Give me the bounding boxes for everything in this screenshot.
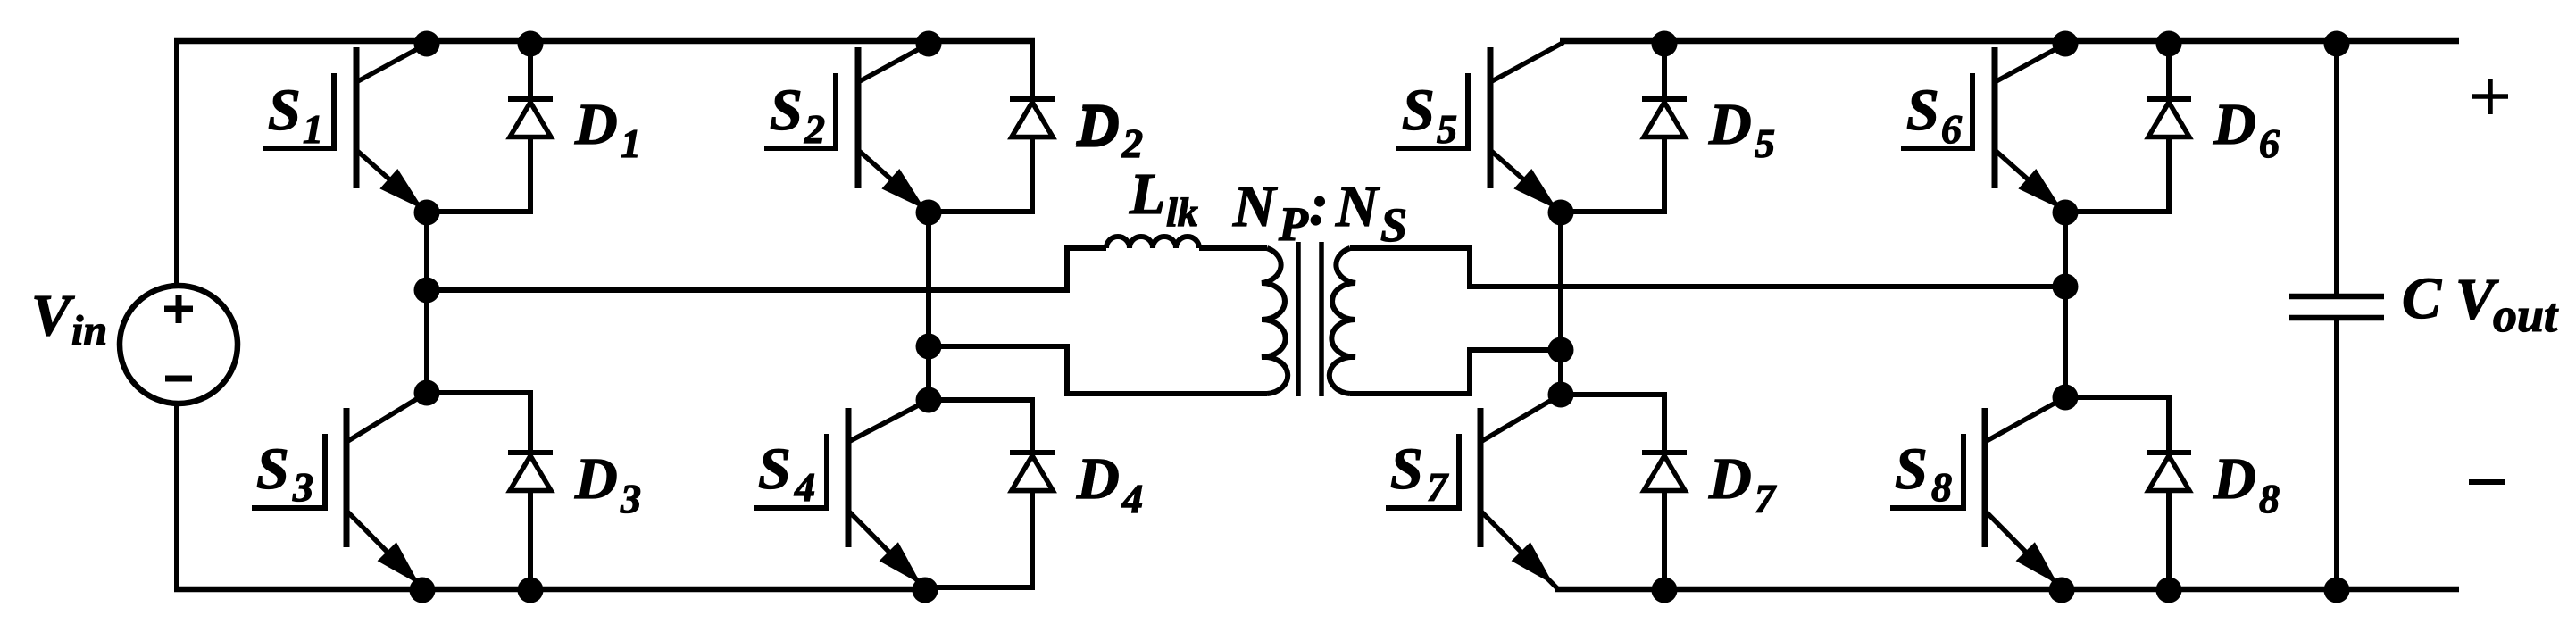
- svg-text:D: D: [1708, 446, 1752, 512]
- svg-text:S: S: [1895, 437, 1928, 502]
- svg-text:D: D: [1708, 92, 1752, 157]
- svg-text:D: D: [1076, 95, 1120, 160]
- svg-text:V: V: [31, 283, 75, 348]
- svg-text:D: D: [2213, 92, 2256, 157]
- svg-text:S: S: [268, 78, 301, 143]
- svg-text:lk: lk: [1166, 189, 1198, 235]
- svg-text:4: 4: [794, 464, 815, 510]
- svg-text:S: S: [1402, 78, 1435, 143]
- svg-text:1: 1: [621, 121, 641, 166]
- svg-text:S: S: [770, 78, 803, 143]
- svg-text:8: 8: [2259, 476, 2280, 521]
- svg-text:6: 6: [1941, 106, 1962, 152]
- svg-text:3: 3: [620, 476, 641, 521]
- svg-text:2: 2: [804, 106, 825, 152]
- svg-text:D: D: [574, 92, 618, 157]
- svg-text:D: D: [574, 446, 618, 512]
- svg-text:P: P: [1278, 197, 1309, 251]
- svg-text:1: 1: [303, 106, 323, 152]
- svg-text:S: S: [1906, 78, 1939, 143]
- svg-text:in: in: [71, 307, 107, 354]
- svg-text:6: 6: [2259, 121, 2280, 166]
- svg-text:D: D: [1076, 446, 1120, 512]
- svg-text:S: S: [1380, 198, 1407, 252]
- svg-text:D: D: [2213, 446, 2256, 512]
- svg-text::: :: [1309, 172, 1329, 237]
- svg-text:4: 4: [1121, 476, 1143, 521]
- svg-text:N: N: [1335, 174, 1380, 239]
- svg-text:2: 2: [1121, 121, 1143, 166]
- svg-text:N: N: [1232, 174, 1278, 239]
- svg-text:S: S: [256, 437, 289, 502]
- svg-text:7: 7: [1755, 476, 1777, 521]
- svg-text:S: S: [1390, 437, 1423, 502]
- svg-text:7: 7: [1427, 464, 1449, 510]
- svg-text:3: 3: [292, 464, 313, 510]
- svg-text:L: L: [1129, 162, 1165, 227]
- svg-text:C: C: [2402, 266, 2442, 331]
- svg-text:5: 5: [1755, 121, 1775, 166]
- svg-text:8: 8: [1931, 464, 1952, 510]
- svg-text:out: out: [2493, 288, 2559, 342]
- svg-text:S: S: [758, 437, 791, 502]
- svg-text:5: 5: [1437, 106, 1457, 152]
